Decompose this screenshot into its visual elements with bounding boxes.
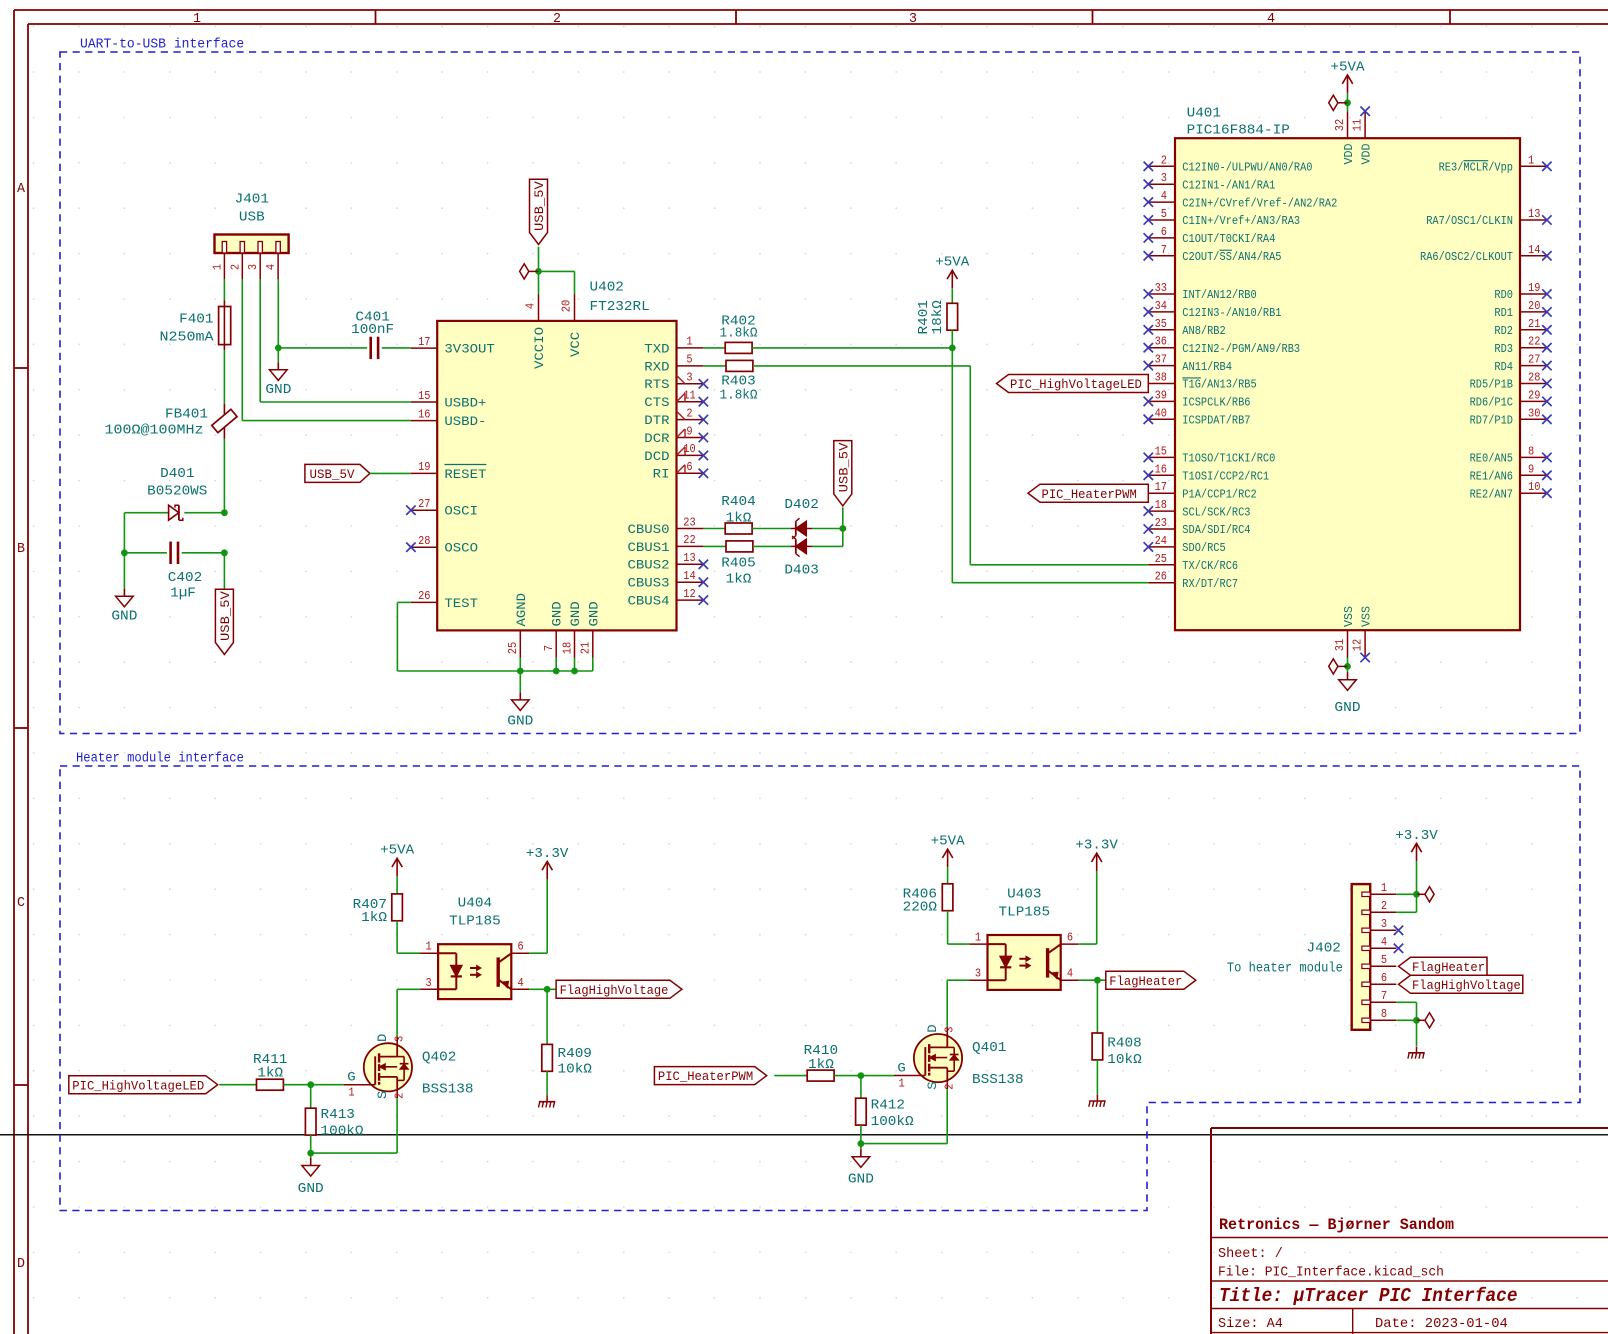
wire VCC node down to VCCIO — [538, 271, 540, 294]
C401 reference — [351, 310, 394, 338]
wire bus to ground — [519, 671, 521, 692]
svg-text:U401: U401 — [1187, 107, 1221, 122]
svg-text:SCL/SCK/RC3: SCL/SCK/RC3 — [1182, 505, 1250, 519]
svg-text:CTS: CTS — [644, 395, 669, 410]
svg-text:GND: GND — [507, 715, 533, 730]
svg-text:Date: 2023-01-04: Date: 2023-01-04 — [1375, 1316, 1508, 1332]
svg-text:OSCI: OSCI — [444, 504, 478, 519]
svg-text:19: 19 — [418, 461, 430, 474]
svg-text:FlagHeater: FlagHeater — [1412, 960, 1485, 975]
svg-text:INT/AN12/RB0: INT/AN12/RB0 — [1182, 288, 1256, 302]
svg-text:10kΩ: 10kΩ — [558, 1063, 592, 1078]
svg-text:1: 1 — [211, 264, 224, 270]
wire C402 right lead — [182, 552, 225, 554]
U402 top pins VCCIO and VCC — [525, 294, 584, 369]
ground reference at R409 — [539, 1096, 556, 1108]
R406 reference — [903, 888, 937, 916]
svg-text:ICSPCLK/RB6: ICSPCLK/RB6 — [1182, 396, 1250, 410]
wire J402 pin8 to ground node — [1396, 1019, 1416, 1021]
svg-text:C1IN+/Vref+/AN3/RA3: C1IN+/Vref+/AN3/RA3 — [1182, 214, 1300, 228]
svg-text:1kΩ: 1kΩ — [257, 1067, 283, 1082]
wire source bus to GND — [310, 1153, 312, 1158]
label PIC_HighVoltageLED at R411 — [69, 1076, 218, 1094]
wire VBUS to USB_5V label — [223, 553, 225, 589]
svg-text:3: 3 — [909, 11, 917, 27]
junction VDD node — [1344, 99, 1351, 106]
svg-text:220Ω: 220Ω — [903, 901, 937, 916]
wire R401 to TXD node — [951, 330, 953, 348]
F401 reference — [160, 313, 215, 346]
title block date field — [1375, 1316, 1508, 1332]
svg-text:CBUS3: CBUS3 — [628, 576, 670, 591]
svg-text:RE0/AN5: RE0/AN5 — [1470, 452, 1513, 466]
svg-text:22: 22 — [683, 534, 695, 547]
svg-text:RA7/OSC1/CLKIN: RA7/OSC1/CLKIN — [1426, 214, 1513, 228]
svg-text:RE3/MCLR/Vpp: RE3/MCLR/Vpp — [1439, 161, 1513, 175]
svg-text:RD2: RD2 — [1494, 324, 1513, 338]
svg-text:3V3OUT: 3V3OUT — [444, 342, 495, 357]
wire C402 to GND — [123, 553, 125, 589]
wire flag node to R409 — [546, 989, 548, 1044]
svg-text:1µF: 1µF — [170, 587, 196, 602]
svg-text:C12IN3-/AN10/RB1: C12IN3-/AN10/RB1 — [1182, 306, 1281, 320]
svg-text:DTR: DTR — [644, 413, 669, 428]
D401 reference — [147, 467, 207, 500]
svg-text:Title: µTracer PIC Interface: Title: µTracer PIC Interface — [1219, 1285, 1518, 1307]
wire R413 to source bus — [310, 1135, 312, 1153]
svg-text:4: 4 — [1067, 968, 1073, 981]
svg-text:19: 19 — [1528, 282, 1540, 295]
svg-text:C2IN+/CVref/Vref-/AN2/RA2: C2IN+/CVref/Vref-/AN2/RA2 — [1182, 196, 1337, 210]
svg-text:AGND: AGND — [514, 593, 529, 627]
junction Q401 source bus — [858, 1140, 865, 1147]
svg-text:34: 34 — [1155, 300, 1167, 313]
wire R402 to R401 node — [752, 347, 952, 349]
svg-text:5: 5 — [1161, 208, 1167, 221]
U401 VDD pins — [1334, 107, 1374, 165]
svg-text:PIC_HighVoltageLED: PIC_HighVoltageLED — [72, 1078, 204, 1093]
optocoupler U403 TLP185 — [970, 888, 1079, 990]
svg-text:USBD+: USBD+ — [444, 395, 486, 410]
svg-text:VDD: VDD — [1342, 144, 1356, 165]
title block frame — [1211, 1128, 1608, 1334]
Heater module interface section box — [60, 752, 1580, 1211]
svg-text:23: 23 — [683, 516, 695, 529]
svg-text:36: 36 — [1155, 336, 1167, 349]
svg-text:FB401: FB401 — [165, 408, 208, 423]
wire R409 to ground — [546, 1071, 548, 1095]
svg-text:32: 32 — [1334, 119, 1347, 131]
svg-text:D403: D403 — [784, 564, 818, 579]
svg-text:3: 3 — [1381, 918, 1387, 931]
svg-text:PIC_HeaterPWM: PIC_HeaterPWM — [658, 1069, 753, 1084]
svg-text:+5VA: +5VA — [931, 835, 966, 850]
ground GND at C402 — [111, 589, 137, 625]
zener diode D403 — [791, 536, 812, 557]
svg-text:C402: C402 — [168, 571, 202, 586]
capacitor C401 — [371, 337, 378, 359]
svg-text:1.8kΩ: 1.8kΩ — [720, 327, 758, 342]
svg-text:N250mA: N250mA — [160, 331, 215, 346]
U401 VSS pins — [1334, 606, 1374, 662]
wire USB_5V label to clamp node — [842, 507, 844, 528]
svg-text:8: 8 — [1528, 445, 1534, 458]
svg-text:+3.3V: +3.3V — [1075, 839, 1118, 854]
svg-text:40: 40 — [1155, 407, 1167, 420]
svg-text:VCC: VCC — [568, 332, 583, 357]
svg-text:16: 16 — [1155, 463, 1167, 476]
svg-text:4: 4 — [1161, 190, 1167, 203]
svg-text:U402: U402 — [590, 281, 624, 296]
svg-text:3: 3 — [394, 1036, 407, 1042]
svg-text:CBUS0: CBUS0 — [628, 522, 670, 537]
svg-text:3: 3 — [686, 372, 692, 385]
svg-text:VSS: VSS — [1360, 606, 1374, 627]
R412 reference — [871, 1098, 914, 1130]
label FlagHeater at U403 — [1106, 971, 1196, 989]
svg-text:1kΩ: 1kΩ — [361, 911, 387, 926]
svg-text:J402: J402 — [1307, 942, 1341, 957]
resistor R406 — [942, 884, 953, 911]
svg-text:SDA/SDI/RC4: SDA/SDI/RC4 — [1182, 523, 1250, 537]
svg-text:2: 2 — [944, 1083, 957, 1089]
wire +5VA to R407 — [396, 876, 398, 894]
svg-text:24: 24 — [1155, 535, 1167, 548]
svg-text:25: 25 — [507, 642, 520, 654]
svg-text:RE1/AN6: RE1/AN6 — [1470, 470, 1513, 484]
wire source bus to GND right — [860, 1144, 862, 1150]
D403 reference — [784, 564, 818, 579]
no-connect J402 pin3 — [1394, 926, 1403, 935]
wire VSS to ground — [1347, 658, 1349, 673]
ground GND at Q401 — [848, 1149, 874, 1187]
svg-text:33: 33 — [1155, 282, 1167, 295]
wire +5VA to VDD — [1347, 93, 1349, 111]
R401 reference — [917, 300, 946, 334]
IC U401 PIC16F884 body — [1175, 138, 1520, 630]
label USB_5V at U402 RESET — [305, 464, 370, 482]
U401 right pins with numbers and names — [1420, 154, 1552, 501]
junction CBUS0 clamp node — [839, 525, 846, 532]
svg-text:Sheet: /: Sheet: / — [1218, 1246, 1283, 1262]
svg-text:D402: D402 — [784, 498, 818, 513]
junction FlagHighVoltage node — [544, 986, 551, 993]
power +5VA at R406 — [931, 835, 966, 868]
U402 left pins with numbers and names — [411, 336, 495, 611]
svg-text:17: 17 — [1155, 481, 1167, 494]
title block title field — [1219, 1285, 1518, 1307]
svg-text:C: C — [17, 895, 25, 911]
svg-text:CBUS4: CBUS4 — [628, 594, 670, 609]
svg-text:VDD: VDD — [1360, 144, 1374, 165]
svg-text:GND: GND — [550, 601, 565, 626]
wire R408 to ground — [1096, 1060, 1098, 1095]
svg-text:+5VA: +5VA — [935, 256, 970, 271]
svg-text:4: 4 — [1267, 11, 1275, 27]
svg-text:TLP185: TLP185 — [449, 915, 501, 930]
IC U401 reference — [1187, 107, 1290, 139]
transistor Q401 BSS138 — [894, 1024, 1024, 1090]
U401 left pins with numbers and names — [1144, 154, 1338, 591]
transistor Q402 BSS138 — [344, 1033, 474, 1099]
svg-text:10: 10 — [1528, 481, 1540, 494]
svg-text:+5VA: +5VA — [380, 844, 415, 859]
svg-text:100Ω@100MHz: 100Ω@100MHz — [105, 424, 204, 439]
U401 T1G overbar — [1182, 377, 1201, 379]
svg-text:SDO/RC5: SDO/RC5 — [1182, 541, 1225, 555]
svg-text:12: 12 — [1352, 639, 1365, 651]
svg-text:9: 9 — [1528, 463, 1534, 476]
ground GND at U402 — [507, 692, 533, 729]
D402 reference — [784, 498, 818, 513]
svg-text:4: 4 — [265, 264, 278, 270]
wire Q402 source — [311, 1098, 397, 1153]
svg-text:6: 6 — [1161, 226, 1167, 239]
wire F401 to FB401 — [223, 350, 225, 403]
svg-text:PIC16F884-IP: PIC16F884-IP — [1187, 124, 1290, 139]
power flag PWR_FLAG at U402 — [520, 264, 539, 279]
svg-text:D: D — [17, 1256, 25, 1272]
svg-text:37: 37 — [1155, 354, 1167, 367]
wire Q401 drain to U403 pin3 — [947, 980, 969, 1027]
wire label to R411 — [219, 1084, 256, 1086]
svg-text:RX/DT/RC7: RX/DT/RC7 — [1182, 577, 1238, 591]
svg-text:D401: D401 — [160, 467, 194, 482]
resistor R408 — [1092, 1033, 1103, 1060]
svg-text:S: S — [925, 1081, 940, 1090]
resistor R410 — [807, 1070, 834, 1081]
wire VCC node to VCC pin — [539, 271, 575, 294]
junction C402 left — [121, 549, 128, 556]
svg-text:27: 27 — [418, 498, 430, 511]
svg-text:6: 6 — [1067, 932, 1073, 945]
svg-text:ICSPDAT/RB7: ICSPDAT/RB7 — [1182, 414, 1250, 428]
U401 MCLR overbar — [1463, 160, 1488, 162]
R409 reference — [558, 1047, 592, 1078]
resistor R402 — [725, 342, 752, 353]
wire C402 left lead — [124, 552, 166, 554]
junction Q402 source bus — [307, 1150, 314, 1157]
svg-text:23: 23 — [1155, 517, 1167, 530]
wire FB401 to D401 node — [223, 439, 225, 513]
wire D403 to clamp node — [812, 529, 843, 547]
svg-text:3: 3 — [247, 264, 260, 270]
svg-text:C12IN1-/AN1/RA1: C12IN1-/AN1/RA1 — [1182, 178, 1275, 192]
svg-text:3: 3 — [1161, 172, 1167, 185]
svg-text:1: 1 — [426, 941, 432, 954]
svg-text:S: S — [375, 1090, 390, 1099]
wire R405 to D403 — [753, 545, 791, 547]
schottky diode D401 — [169, 505, 183, 520]
power +3.3V at U404 — [526, 847, 569, 880]
junction GND7 bus — [553, 668, 560, 675]
U402 right pins with numbers and names — [628, 336, 709, 609]
svg-text:OSCO: OSCO — [444, 541, 478, 556]
svg-text:Size: A4: Size: A4 — [1218, 1316, 1283, 1332]
ground GND at U401 — [1334, 672, 1360, 716]
title block file field — [1218, 1265, 1444, 1281]
label PIC_HighVoltageLED at U401 — [997, 375, 1149, 393]
svg-text:USB: USB — [239, 211, 265, 226]
wire R403 to corner — [753, 365, 970, 367]
svg-text:G: G — [897, 1061, 905, 1076]
svg-text:2: 2 — [229, 264, 242, 270]
title block sheet field — [1218, 1246, 1283, 1262]
svg-text:18kΩ: 18kΩ — [931, 300, 946, 334]
page bottom edge line — [0, 1134, 1608, 1136]
optocoupler U404 TLP185 — [420, 897, 529, 999]
svg-text:J401: J401 — [235, 193, 269, 208]
resistor R401 — [947, 303, 958, 330]
svg-text:38: 38 — [1155, 372, 1167, 385]
svg-text:F401: F401 — [179, 313, 213, 328]
label FlagHighVoltage at J402 — [1399, 975, 1523, 993]
junction U402 VCC node — [535, 268, 542, 275]
svg-text:VCCIO: VCCIO — [532, 327, 547, 369]
svg-text:100kΩ: 100kΩ — [871, 1115, 914, 1130]
svg-text:PIC_HeaterPWM: PIC_HeaterPWM — [1042, 487, 1137, 502]
wire USB_5V label to RESET — [370, 472, 411, 474]
junction J401 pin4 node — [275, 345, 282, 352]
svg-text:35: 35 — [1155, 318, 1167, 331]
wire to C401 — [278, 347, 367, 349]
svg-text:28: 28 — [418, 535, 430, 548]
power +5VA at U401 — [1331, 60, 1366, 93]
resistor R403 — [726, 360, 753, 371]
U402 RESET overbar — [444, 464, 486, 466]
svg-text:39: 39 — [1155, 389, 1167, 402]
J401 pin numbers 1-4 — [211, 264, 278, 270]
svg-text:30: 30 — [1528, 407, 1540, 420]
svg-text:25: 25 — [1155, 553, 1167, 566]
resistor R413 — [305, 1108, 316, 1135]
zener diode D402 — [791, 518, 812, 539]
junction Q402 gate node — [307, 1081, 314, 1088]
svg-text:CBUS2: CBUS2 — [628, 558, 670, 573]
svg-text:1: 1 — [193, 11, 201, 27]
resistor R409 — [542, 1044, 553, 1071]
ground GND at Q402 — [298, 1158, 324, 1197]
svg-text:FlagHighVoltage: FlagHighVoltage — [560, 983, 669, 998]
power flag PWR_FLAG at J402 pin1 — [1417, 887, 1435, 902]
connector J402 to heater module — [1352, 882, 1397, 1030]
svg-text:GND: GND — [298, 1182, 324, 1197]
resistor R411 — [257, 1079, 284, 1090]
wire U403 pin4 to flag node — [1079, 979, 1106, 981]
wire +5VA to R401 — [951, 288, 953, 303]
svg-text:R408: R408 — [1107, 1037, 1141, 1052]
svg-text:RD6/P1C: RD6/P1C — [1470, 396, 1513, 410]
wire J402 pin7 loop — [1396, 1002, 1416, 1020]
resistor R412 — [856, 1098, 867, 1125]
svg-text:+3.3V: +3.3V — [526, 847, 569, 862]
svg-text:RD5/P1B: RD5/P1B — [1470, 378, 1513, 392]
svg-text:USB_5V: USB_5V — [310, 467, 355, 482]
wire Q401 source — [861, 1089, 947, 1144]
R408 reference — [1107, 1037, 1141, 1069]
svg-text:20: 20 — [1528, 300, 1540, 313]
svg-text:28: 28 — [1528, 372, 1540, 385]
svg-text:10kΩ: 10kΩ — [1107, 1053, 1141, 1068]
wire U402 ground bus — [520, 658, 593, 671]
svg-text:RD0: RD0 — [1494, 288, 1513, 302]
svg-text:1: 1 — [899, 1078, 905, 1091]
svg-text:26: 26 — [1155, 571, 1167, 584]
svg-text:3: 3 — [975, 968, 981, 981]
capacitor C402 — [171, 542, 178, 564]
wire U404 pin4 to flag node — [529, 988, 556, 990]
svg-text:15: 15 — [1155, 445, 1167, 458]
wire J401 pin3 to USBD+ — [260, 279, 411, 402]
svg-text:To heater module: To heater module — [1227, 962, 1343, 977]
svg-text:GND: GND — [265, 383, 291, 398]
svg-text:DCR: DCR — [644, 431, 669, 446]
svg-text:GND: GND — [568, 601, 583, 626]
svg-text:100nF: 100nF — [351, 323, 394, 338]
no-connect J402 pin4 — [1394, 944, 1403, 953]
label PIC_HeaterPWM at R410 — [654, 1067, 766, 1085]
svg-text:5: 5 — [1381, 954, 1387, 967]
wire TXD to R402 — [703, 347, 725, 349]
svg-text:C12IN0-/ULPWU/AN0/RA0: C12IN0-/ULPWU/AN0/RA0 — [1182, 161, 1312, 175]
svg-text:T1G/AN13/RB5: T1G/AN13/RB5 — [1182, 378, 1256, 392]
svg-text:R405: R405 — [721, 557, 755, 572]
U401 SS overbar — [1220, 249, 1232, 251]
svg-text:1: 1 — [1381, 882, 1387, 895]
svg-text:4: 4 — [1381, 936, 1387, 949]
wire D401 to C402 left — [123, 513, 125, 553]
junction GND18 bus — [571, 668, 578, 675]
junction TXD pullup node — [949, 345, 956, 352]
svg-text:29: 29 — [1528, 389, 1540, 402]
resistor R405 — [726, 541, 753, 552]
svg-text:GND: GND — [1334, 701, 1360, 716]
svg-text:CBUS1: CBUS1 — [628, 540, 670, 555]
wire R404 to D402 — [752, 528, 791, 530]
svg-text:RTS: RTS — [644, 377, 669, 392]
svg-text:2: 2 — [1381, 900, 1387, 913]
svg-text:+3.3V: +3.3V — [1395, 829, 1438, 844]
svg-text:AN11/RB4: AN11/RB4 — [1182, 360, 1232, 374]
svg-text:FlagHighVoltage: FlagHighVoltage — [1412, 978, 1521, 993]
svg-text:GND: GND — [848, 1173, 874, 1188]
U402 bottom pins AGND GND — [507, 593, 601, 658]
svg-text:100kΩ: 100kΩ — [321, 1125, 364, 1140]
svg-text:15: 15 — [418, 390, 430, 403]
svg-text:21: 21 — [580, 642, 593, 654]
svg-text:13: 13 — [683, 552, 695, 565]
svg-text:2: 2 — [553, 11, 561, 27]
svg-text:TXD: TXD — [644, 341, 669, 356]
wire Q402 drain to U404 pin3 — [397, 989, 420, 1036]
svg-text:27: 27 — [1528, 354, 1540, 367]
wire U404 pin6 to +3.3V — [529, 879, 547, 953]
wire CBUS1 to R405 — [703, 545, 726, 547]
svg-text:U404: U404 — [458, 897, 492, 912]
svg-text:1kΩ: 1kΩ — [726, 512, 752, 527]
svg-text:TX/CK/RC6: TX/CK/RC6 — [1182, 559, 1238, 573]
svg-text:R412: R412 — [871, 1098, 905, 1113]
power +3.3V at U403 — [1075, 839, 1118, 872]
C402 reference — [168, 571, 202, 602]
svg-text:7: 7 — [1381, 990, 1387, 1003]
svg-text:18: 18 — [561, 642, 574, 654]
R402 reference — [720, 315, 758, 342]
svg-text:B0520WS: B0520WS — [147, 485, 207, 500]
no-connect U402 OSCI — [406, 506, 415, 515]
svg-text:VSS: VSS — [1342, 606, 1356, 627]
svg-text:R409: R409 — [558, 1047, 592, 1062]
